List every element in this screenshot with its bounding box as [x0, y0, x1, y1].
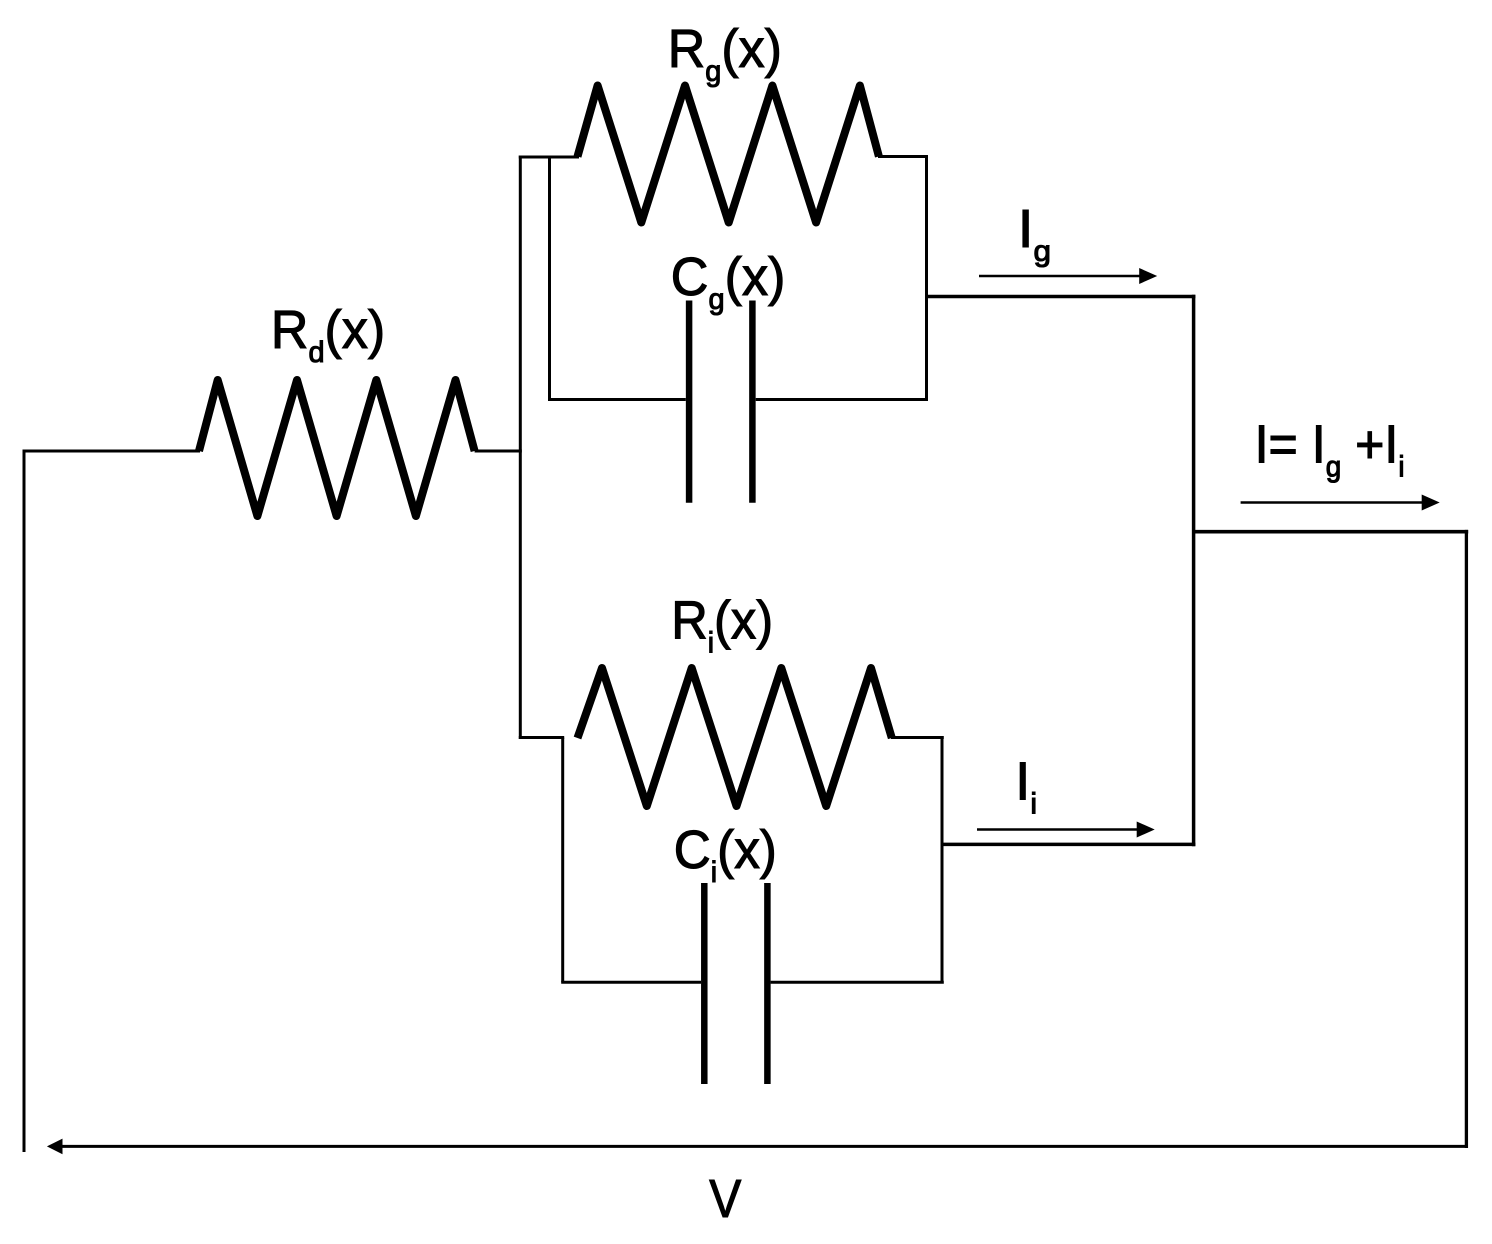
svg-text:I= Ig +Ii: I= Ig +Ii — [1255, 415, 1405, 484]
svg-text:Rd(x): Rd(x) — [271, 300, 385, 369]
svg-text:Cg(x): Cg(x) — [671, 247, 786, 316]
svg-text:Ri(x): Ri(x) — [671, 591, 773, 660]
svg-text:Rg(x): Rg(x) — [668, 19, 782, 88]
svg-text:Ii: Ii — [1015, 752, 1037, 821]
svg-text:Ig: Ig — [1018, 198, 1051, 268]
svg-text:V: V — [709, 1168, 741, 1228]
svg-text:Ci(x): Ci(x) — [674, 820, 777, 889]
